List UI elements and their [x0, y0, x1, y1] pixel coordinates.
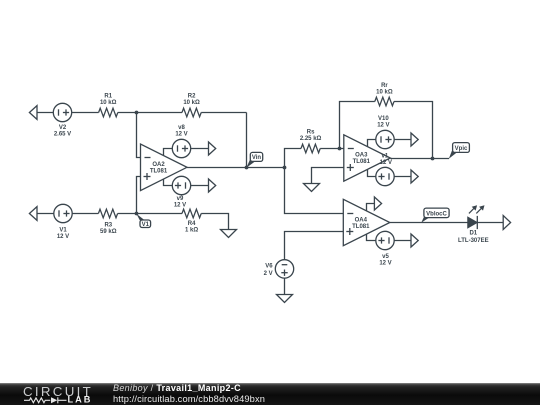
svg-text:Beniboy / Travail1_Manip2-C: Beniboy / Travail1_Manip2-C — [113, 383, 241, 393]
wire — [191, 148, 209, 150]
footer bar — [0, 383, 540, 405]
node junction — [338, 147, 342, 151]
wire — [368, 140, 376, 147]
wire — [137, 177, 141, 214]
port arrow P2 (left, V2 row) — [29, 106, 37, 120]
svg-text:10 kΩ: 10 kΩ — [376, 90, 393, 96]
port arrow (V10) — [411, 133, 418, 146]
label flag V1 — [142, 222, 150, 228]
wire — [37, 213, 54, 215]
svg-text:12 V: 12 V — [377, 123, 389, 129]
wire — [394, 139, 411, 141]
ground — [221, 230, 237, 238]
resistor Rs — [301, 144, 320, 153]
label OA2 — [150, 162, 168, 175]
op-amp OA2 — [141, 144, 188, 191]
label flag Vin — [252, 155, 262, 161]
voltage source v8 — [172, 139, 190, 157]
net flag V1 — [136, 214, 150, 228]
label V2 — [54, 125, 71, 138]
svg-text:R4: R4 — [188, 221, 196, 227]
label V6 — [264, 264, 274, 278]
svg-text:12 V: 12 V — [380, 160, 392, 166]
svg-text:LAB: LAB — [68, 395, 93, 405]
label flag VblocC — [426, 211, 447, 217]
wire — [320, 148, 344, 150]
wire (feedback Rr right) — [394, 102, 433, 159]
node junction — [135, 212, 139, 216]
label R1 — [100, 93, 117, 106]
resistor R2 — [182, 108, 201, 117]
wire (OA2 output) — [187, 167, 285, 169]
port arrow (v5) — [411, 234, 418, 247]
label flag Vpic — [455, 146, 468, 152]
svg-text:Rs: Rs — [307, 130, 315, 136]
voltage source v9 — [172, 176, 190, 194]
svg-text:10 kΩ: 10 kΩ — [183, 100, 200, 106]
svg-text:TL081: TL081 — [353, 159, 371, 165]
svg-text:2.25 kΩ: 2.25 kΩ — [300, 136, 322, 142]
svg-text:V10: V10 — [378, 116, 389, 122]
svg-text:12 V: 12 V — [174, 202, 186, 208]
svg-text:59 kΩ: 59 kΩ — [100, 229, 117, 235]
label v1 — [380, 154, 392, 167]
wire — [201, 214, 228, 230]
wire — [137, 113, 141, 158]
port arrow P1 (left, V1 row) — [29, 207, 37, 221]
voltage source V2 — [53, 103, 71, 121]
op-amp OA3 — [344, 135, 391, 182]
svg-text:http://circuitlab.com/cbb8dvv8: http://circuitlab.com/cbb8dvv849bxn — [113, 394, 265, 404]
net flag Vin — [246, 152, 262, 167]
wire (OA3 output) — [390, 158, 449, 160]
port arrow (v8) — [209, 142, 216, 155]
wire (to OA4 +) — [285, 232, 344, 260]
port arrow (LED out) — [503, 216, 510, 230]
wire — [118, 112, 182, 114]
label V1 — [57, 228, 69, 241]
voltage source V1 — [54, 204, 72, 222]
node junction — [245, 166, 249, 170]
LED D1 — [468, 205, 485, 229]
wire — [72, 112, 99, 114]
svg-text:OA4: OA4 — [355, 217, 368, 223]
svg-text:10 kΩ: 10 kΩ — [100, 100, 117, 106]
node junction — [283, 166, 287, 170]
svg-text:OA2: OA2 — [152, 162, 165, 168]
svg-text:v9: v9 — [177, 196, 184, 202]
label v9 — [174, 196, 186, 209]
logo waveform — [24, 397, 67, 403]
wire — [285, 149, 302, 168]
wire — [37, 112, 53, 114]
svg-text:V2: V2 — [59, 125, 67, 131]
svg-text:Vin: Vin — [252, 155, 262, 161]
port arrow (OA4 V+) — [374, 197, 381, 210]
label Rs — [300, 130, 322, 143]
wire — [118, 213, 182, 215]
svg-text:R2: R2 — [188, 93, 196, 99]
svg-text:V1: V1 — [142, 222, 150, 228]
svg-text:TL081: TL081 — [150, 168, 168, 174]
svg-text:R1: R1 — [104, 93, 112, 99]
label D1 — [458, 230, 489, 243]
node junction — [135, 111, 139, 115]
label R2 — [183, 93, 200, 106]
svg-text:LTL-307EE: LTL-307EE — [458, 238, 489, 244]
resistor Rr — [375, 97, 394, 106]
resistor R3 — [98, 209, 117, 218]
svg-text:TL081: TL081 — [352, 224, 370, 230]
voltage source V10 — [376, 130, 394, 148]
wire — [201, 112, 246, 114]
voltage source v5 — [376, 231, 394, 249]
svg-text:Rr: Rr — [381, 83, 388, 89]
net flag Vpic — [449, 143, 470, 159]
logo CIRCUIT — [23, 384, 93, 399]
label OA3 — [353, 153, 371, 166]
wire (OA4 output) — [390, 222, 468, 224]
svg-text:Vpic: Vpic — [455, 146, 468, 152]
wire (feedback Rr left) — [340, 102, 375, 149]
wire — [164, 179, 173, 186]
svg-text:D1: D1 — [469, 230, 477, 236]
wire — [477, 222, 503, 224]
voltage source V6 — [275, 260, 293, 278]
svg-text:V1: V1 — [59, 228, 67, 234]
svg-text:1 kΩ: 1 kΩ — [185, 227, 198, 233]
resistor R1 — [99, 108, 118, 117]
wire — [164, 149, 173, 156]
svg-text:2.65 V: 2.65 V — [54, 132, 71, 138]
op-amp OA4 — [343, 199, 390, 246]
label R4 — [185, 221, 198, 234]
footer title — [113, 383, 265, 404]
svg-text:12 V: 12 V — [175, 132, 187, 138]
svg-text:v8: v8 — [178, 125, 185, 131]
resistor R4 — [182, 209, 201, 218]
wire — [284, 278, 286, 294]
svg-text:2 V: 2 V — [264, 271, 273, 277]
port arrow (v1) — [411, 170, 418, 183]
label V10 — [377, 116, 389, 129]
node junction — [431, 157, 435, 161]
svg-text:V6: V6 — [265, 264, 273, 270]
label Rr — [376, 83, 393, 96]
label v5 — [379, 254, 391, 267]
wire (OA4 V+ stub) — [367, 204, 375, 211]
label v8 — [175, 125, 187, 138]
wire (to OA4 -) — [285, 168, 344, 214]
label R3 — [100, 222, 117, 235]
wire — [246, 113, 248, 168]
port arrow (v9) — [209, 179, 216, 192]
wire — [72, 213, 98, 215]
wire — [394, 176, 411, 178]
svg-text:VblocC: VblocC — [426, 211, 447, 217]
label OA4 — [352, 217, 370, 230]
wire — [367, 234, 376, 240]
net flag VblocC — [421, 208, 449, 223]
svg-text:12 V: 12 V — [57, 234, 69, 240]
ground (OA3 +) — [312, 168, 344, 184]
logo LAB — [68, 395, 93, 405]
wire — [191, 185, 209, 187]
svg-text:OA3: OA3 — [355, 153, 368, 159]
voltage source v1 — [376, 167, 394, 185]
svg-text:R3: R3 — [104, 222, 112, 228]
wire — [394, 240, 411, 242]
svg-text:v1: v1 — [382, 154, 389, 160]
svg-text:v5: v5 — [382, 254, 389, 260]
ground (V6) — [277, 295, 293, 303]
wire — [368, 170, 376, 177]
svg-text:12 V: 12 V — [379, 260, 391, 266]
